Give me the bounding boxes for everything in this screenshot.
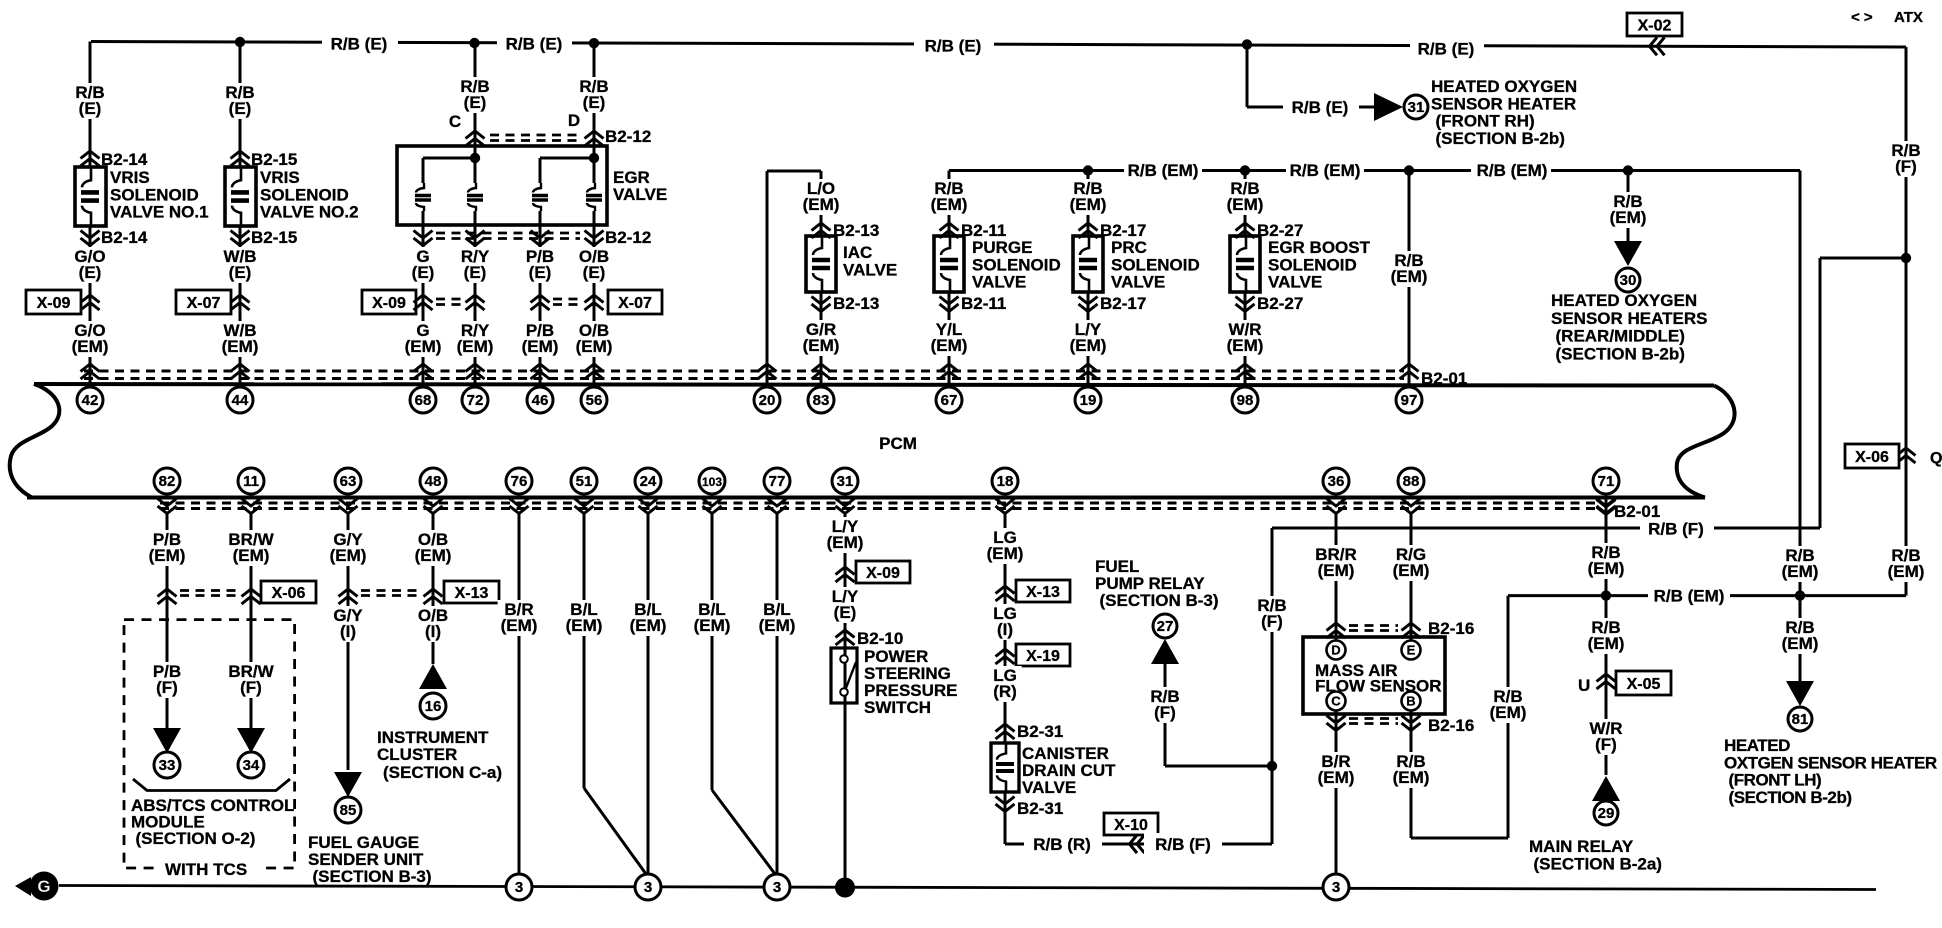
svg-text:R/B (F): R/B (F) (1648, 520, 1704, 539)
wire pin 36 BR/R (1335, 512, 1338, 641)
svg-text:(EM): (EM) (931, 336, 968, 355)
wire pin 51 B/L to ground (583, 512, 586, 788)
svg-text:B2-01: B2-01 (1614, 502, 1660, 521)
node circle 27 fuel pump relay (1153, 614, 1177, 638)
wire label R/B (E) #3 (914, 34, 994, 56)
svg-text:(R): (R) (993, 682, 1017, 701)
svg-text:X-09: X-09 (866, 565, 900, 582)
PCM pin 82 (154, 468, 180, 494)
svg-text:X-02: X-02 (1638, 18, 1672, 35)
svg-text:48: 48 (425, 473, 442, 490)
connector X-13 row chevrons (339, 589, 358, 604)
svg-text:20: 20 (759, 392, 776, 409)
svg-text:(I): (I) (340, 622, 356, 641)
PCM pin 98 (1232, 387, 1258, 413)
svg-text:31: 31 (1408, 99, 1425, 116)
svg-text:(E): (E) (583, 263, 606, 282)
svg-text:81: 81 (1792, 711, 1809, 728)
svg-text:(EM): (EM) (931, 195, 968, 214)
node dot right R/B (F) (1901, 253, 1911, 263)
connector X-06 row chevrons (158, 589, 177, 604)
arrow to circle 33 (153, 728, 181, 753)
svg-text:(F): (F) (240, 678, 262, 697)
wire fuel pump relay R/B (F) (1164, 664, 1167, 766)
svg-text:36: 36 (1328, 473, 1345, 490)
solenoid IAC valve (806, 236, 836, 292)
arrow to circle 85 (334, 772, 362, 797)
svg-text:R/B (EM): R/B (EM) (1128, 161, 1199, 180)
svg-text:R/B (EM): R/B (EM) (1290, 161, 1361, 180)
node circle 29 main relay (1594, 801, 1618, 825)
PCM connector chevron pin 67 (940, 364, 959, 379)
wire R/B (EM) from rail down right side (1799, 171, 1802, 596)
svg-text:B2-14: B2-14 (101, 150, 148, 169)
solenoid EGR boost solenoid valve (1230, 236, 1260, 292)
svg-text:(SECTION B-2a): (SECTION B-2a) (1534, 855, 1662, 874)
svg-text:(EM): (EM) (72, 337, 109, 356)
svg-text:X-19: X-19 (1026, 648, 1060, 665)
svg-text:PRC: PRC (1111, 238, 1147, 257)
svg-text:(F): (F) (156, 678, 178, 697)
connector B2-16 top row (1327, 623, 1346, 638)
connector B2-13 bottom (812, 297, 831, 312)
svg-text:HEATED OXYGEN: HEATED OXYGEN (1431, 77, 1577, 96)
solenoid purge solenoid valve (934, 236, 964, 292)
wire VRIS1 lower G/O (89, 226, 92, 384)
svg-text:3: 3 (644, 879, 652, 896)
svg-text:56: 56 (586, 392, 603, 409)
wire label R/B (E) to sensor 31 (1283, 96, 1359, 118)
svg-text:(SECTION B-2b): (SECTION B-2b) (1436, 129, 1565, 148)
connector B2-27 top (1236, 223, 1255, 238)
svg-text:R/B (E): R/B (E) (1418, 40, 1475, 59)
PCM pin 77 (764, 468, 790, 494)
svg-text:VALVE NO.1: VALVE NO.1 (110, 203, 209, 222)
svg-text:76: 76 (511, 473, 528, 490)
solenoid VRIS solenoid valve No.2 (225, 167, 256, 226)
svg-text:SENSOR HEATERS: SENSOR HEATERS (1551, 309, 1708, 328)
svg-text:B2-10: B2-10 (857, 629, 903, 648)
connector B2-11 top (940, 223, 959, 238)
wire label R/B (R) (1024, 833, 1102, 854)
svg-text:46: 46 (532, 392, 549, 409)
ground symbol G (15, 877, 31, 896)
svg-text:Q: Q (1930, 450, 1942, 467)
svg-text:PCM: PCM (879, 434, 917, 453)
label WITH TCS (160, 857, 262, 877)
wire label R/B (EM) rail #1 (1124, 159, 1202, 180)
solenoid VRIS solenoid valve No.1 (75, 167, 106, 226)
PCM connector chevron pin 98 (1236, 364, 1255, 379)
svg-text:C: C (449, 112, 461, 131)
PCM bottom bus line (27, 496, 1705, 500)
arrow from fuel pump relay (1151, 639, 1179, 664)
wire label R/B (F) (1640, 518, 1714, 539)
svg-text:(E): (E) (529, 263, 552, 282)
svg-text:85: 85 (340, 802, 357, 819)
EGR coil 4 (586, 183, 602, 211)
svg-text:SOLENOID: SOLENOID (1111, 255, 1200, 274)
wire pin 31 L/Y (844, 512, 847, 878)
PCM bottom connector chevrons (158, 499, 177, 514)
wire purge to pin 67 Y/L (948, 292, 951, 384)
svg-text:R/B (EM): R/B (EM) (1477, 161, 1548, 180)
svg-text:SOLENOID: SOLENOID (110, 185, 199, 204)
PCM pin 63 (335, 468, 361, 494)
svg-text:R/B (E): R/B (E) (925, 37, 982, 56)
PCM connector chevron pin 44 (231, 364, 250, 379)
svg-text:(EM): (EM) (1393, 768, 1430, 787)
PCM pin 56 (581, 387, 607, 413)
connector B2-10 (836, 630, 855, 645)
wire R/B (F) vertical to X-10 line (1271, 528, 1274, 844)
svg-text:G: G (37, 877, 50, 896)
svg-text:(EM): (EM) (630, 616, 667, 635)
svg-text:(EM): (EM) (1588, 559, 1625, 578)
mass air flow sensor box (1303, 637, 1445, 714)
PCM pin 103 (699, 468, 725, 494)
svg-text:82: 82 (159, 473, 176, 490)
svg-text:(EM): (EM) (566, 616, 603, 635)
PCM pin 18 (992, 468, 1018, 494)
node dots on R/B (EM) lower (1601, 590, 1611, 600)
PCM top connector dashed lines (84, 369, 1404, 372)
connector B2-14 top (81, 151, 100, 166)
svg-text:(EM): (EM) (1782, 634, 1819, 653)
svg-text:(F): (F) (1154, 703, 1176, 722)
svg-text:98: 98 (1237, 392, 1254, 409)
wire R/B (R) horizontal (1005, 843, 1272, 846)
arrow to circle 30 (1614, 241, 1642, 266)
svg-text:(EM): (EM) (1782, 562, 1819, 581)
wire label R/B (EM) rail #3 (1471, 159, 1551, 180)
wire R/B (EM) horizontal lower (1508, 594, 1906, 597)
power steering pressure switch (831, 648, 857, 703)
svg-text:(FRONT RH): (FRONT RH) (1436, 112, 1535, 131)
svg-text:R/B (R): R/B (R) (1033, 835, 1091, 854)
connector X-10 (1130, 835, 1145, 853)
svg-text:(EM): (EM) (222, 337, 259, 356)
svg-text:(EM): (EM) (803, 195, 840, 214)
svg-text:51: 51 (576, 473, 593, 490)
wire pin 48 O/B (432, 512, 435, 664)
svg-text:B2-31: B2-31 (1017, 722, 1063, 741)
connector B2-11 bottom (940, 297, 959, 312)
svg-text:(REAR/MIDDLE): (REAR/MIDDLE) (1556, 327, 1685, 346)
wire to heated oxygen sensor heater front RH (1246, 45, 1249, 108)
svg-text:(EM): (EM) (1318, 561, 1355, 580)
svg-text:B2-17: B2-17 (1100, 294, 1146, 313)
arrow to circle 34 (237, 728, 265, 753)
svg-text:B2-31: B2-31 (1017, 799, 1063, 818)
connector X-07 (VRIS2) (176, 290, 231, 314)
PCM pin 11 (238, 468, 264, 494)
svg-text:X-07: X-07 (187, 295, 221, 312)
svg-text:(SECTION B-3): (SECTION B-3) (313, 867, 432, 886)
wire IAC to pin 83 G/R (820, 292, 823, 384)
svg-text:(EM): (EM) (1393, 561, 1430, 580)
connector B2-15 bottom (231, 231, 250, 246)
wire VRIS2 column R/B (E) (239, 42, 242, 167)
PCM pin 51 (571, 468, 597, 494)
svg-text:(F): (F) (1595, 735, 1617, 754)
PCM connector chevron pin 83 (812, 364, 831, 379)
node junction dots on top rail (235, 37, 245, 47)
connector B2-14 bottom (81, 231, 100, 246)
wire pin 71 column (1605, 497, 1608, 775)
wire pin 97 R/B (EM) (1408, 171, 1411, 385)
PCM connector chevron pin 42 (81, 364, 100, 379)
PCM pin 36 (1323, 468, 1349, 494)
svg-text:(EM): (EM) (1391, 267, 1428, 286)
svg-text:(EM): (EM) (1318, 768, 1355, 787)
svg-text:ATX: ATX (1894, 9, 1923, 26)
wire pin 103 B/L to ground (711, 512, 714, 790)
connector X-09 / X-07 row (EGR) (362, 290, 416, 314)
svg-text:EGR BOOST: EGR BOOST (1268, 238, 1371, 257)
wire pin 18 LG (1004, 512, 1007, 743)
svg-text:27: 27 (1157, 618, 1174, 635)
wire pin20 to IAC valve (766, 171, 769, 384)
node circle 85 (335, 797, 361, 823)
svg-text:(E): (E) (229, 263, 252, 282)
connector X-13 (col 18) (996, 586, 1015, 601)
PCM pin 72 (462, 387, 488, 413)
svg-text:R/B (F): R/B (F) (1155, 835, 1211, 854)
svg-text:33: 33 (159, 757, 176, 774)
PCM right torn edge (1677, 386, 1735, 498)
PCM pin 24 (635, 468, 661, 494)
svg-text:42: 42 (82, 392, 99, 409)
connector X-19 (996, 649, 1015, 664)
node circle 33 (154, 752, 180, 778)
node ground dot (PS switch) (835, 878, 855, 898)
svg-text:71: 71 (1598, 473, 1615, 490)
wire top R/B (E) rail (91, 42, 1906, 48)
svg-text:(E): (E) (412, 263, 435, 282)
svg-text:(SECTION B-2b): (SECTION B-2b) (1729, 788, 1852, 807)
wire VRIS2 lower W/B (239, 226, 242, 384)
wire EGR boost to pin 98 W/R (1244, 292, 1247, 384)
wire PRC to pin 19 L/Y (1087, 292, 1090, 384)
svg-text:(EM): (EM) (759, 616, 796, 635)
connector B2-15 top (231, 151, 250, 166)
node circle 16 (420, 693, 446, 719)
svg-text:WITH TCS: WITH TCS (165, 860, 247, 879)
connector B2-17 top (1079, 223, 1098, 238)
arrow to main relay (1592, 776, 1620, 801)
arrow to circle 31 (1374, 93, 1403, 121)
svg-text:VALVE: VALVE (843, 260, 897, 279)
wire VRIS1 column R/B (E) (89, 42, 92, 168)
svg-text:(EM): (EM) (501, 616, 538, 635)
PCM pin 42 (77, 387, 103, 413)
solenoid PRC solenoid valve (1073, 236, 1103, 292)
svg-text:(EM): (EM) (1227, 336, 1264, 355)
connector B2-27 bottom (1236, 297, 1255, 312)
wire EGR C column R/B (E) (474, 43, 477, 183)
wire pin 24 B/L to ground (647, 512, 650, 876)
wire to heated oxygen sensor heater front LH (1799, 596, 1802, 681)
svg-text:(E): (E) (79, 263, 102, 282)
svg-text:D: D (1331, 643, 1340, 658)
svg-text:(I): (I) (425, 622, 441, 641)
solenoid canister drain cut valve (991, 743, 1019, 792)
EGR coil 1 (415, 183, 431, 211)
node ground circle 3 (pins 51/24) (635, 874, 661, 900)
svg-text:VALVE: VALVE (972, 273, 1026, 292)
connector B2-17 bottom (1079, 297, 1098, 312)
svg-text:SOLENOID: SOLENOID (260, 185, 349, 204)
wire MAF B to R/B (EM) riser (1411, 837, 1508, 840)
svg-text:VRIS: VRIS (260, 168, 300, 187)
svg-text:SOLENOID: SOLENOID (1268, 255, 1357, 274)
wire R/B (F) horizontal (1272, 527, 1820, 530)
svg-text:11: 11 (243, 473, 259, 490)
PCM pin 68 (410, 387, 436, 413)
svg-text:SWITCH: SWITCH (864, 698, 931, 717)
svg-text:SENSOR HEATER: SENSOR HEATER (1431, 94, 1576, 113)
PCM pin 20 (754, 387, 780, 413)
PCM connector chevron pin 20 (758, 364, 777, 379)
svg-text:(EM): (EM) (457, 337, 494, 356)
svg-text:B2-11: B2-11 (961, 294, 1006, 313)
connector X-06 with Q (1897, 448, 1916, 463)
svg-text:SOLENOID: SOLENOID (972, 255, 1061, 274)
svg-text:X-07: X-07 (618, 295, 652, 312)
svg-text:X-10: X-10 (1114, 817, 1148, 834)
PCM connector chevron pin 19 (1079, 364, 1098, 379)
svg-text:(F): (F) (1895, 157, 1917, 176)
svg-text:OXTGEN SENSOR HEATER: OXTGEN SENSOR HEATER (1724, 753, 1937, 772)
svg-text:68: 68 (415, 392, 432, 409)
PCM pin 88 (1398, 468, 1424, 494)
arrow to circle 81 (1786, 681, 1814, 706)
svg-text:X-06: X-06 (272, 585, 306, 602)
connector B2-13 top (812, 223, 831, 238)
svg-text:(E): (E) (464, 93, 487, 112)
svg-text:83: 83 (813, 392, 830, 409)
svg-text:(EM): (EM) (149, 546, 186, 565)
svg-text:B2-15: B2-15 (251, 228, 297, 247)
connector B2-12 bottom row (414, 231, 433, 246)
svg-text:B2-13: B2-13 (833, 221, 879, 240)
svg-text:PURGE: PURGE (972, 238, 1032, 257)
EGR valve inner wiring (470, 153, 480, 163)
connector B2-16 bottom row (1327, 716, 1346, 731)
svg-text:X-13: X-13 (1026, 584, 1060, 601)
svg-text:77: 77 (769, 473, 786, 490)
svg-text:(EM): (EM) (576, 337, 613, 356)
svg-text:18: 18 (997, 473, 1014, 490)
svg-text:67: 67 (941, 392, 958, 409)
wire right R/B (F) from X-02 (1905, 47, 1908, 596)
svg-text:63: 63 (340, 473, 357, 490)
wire label R/B (E) #2 (497, 32, 572, 53)
wire purge column R/B (EM) (948, 171, 951, 237)
svg-text:B2-27: B2-27 (1257, 294, 1303, 313)
svg-text:B: B (1406, 694, 1415, 709)
PCM chevron pin 71 B2-01 (1597, 500, 1616, 515)
svg-text:VALVE NO.2: VALVE NO.2 (260, 203, 359, 222)
svg-text:(EM): (EM) (1070, 195, 1107, 214)
wire pin 11 BR/W (250, 512, 253, 729)
PCM pin 71 (1593, 468, 1619, 494)
EGR coil 3 (532, 183, 548, 211)
svg-text:B2-16: B2-16 (1428, 716, 1474, 735)
PCM pin 31 (832, 468, 858, 494)
node dot fuel pump junction (1267, 761, 1277, 771)
svg-text:(EM): (EM) (405, 337, 442, 356)
svg-text:R/B (E): R/B (E) (331, 35, 388, 54)
wire pin 88 R/G (1410, 512, 1413, 641)
svg-text:< >: < > (1851, 9, 1873, 26)
node circle 30 (1616, 268, 1640, 292)
svg-text:VALVE: VALVE (1268, 273, 1322, 292)
svg-text:(EM): (EM) (330, 546, 367, 565)
wire label R/B (EM) rail #2 (1286, 159, 1364, 180)
svg-text:(EM): (EM) (415, 546, 452, 565)
svg-text:19: 19 (1080, 392, 1097, 409)
svg-text:VALVE: VALVE (1111, 273, 1165, 292)
wire EGR D column R/B (E) (593, 43, 596, 183)
svg-text:3: 3 (773, 879, 781, 896)
node ground circle 3 (pins 103/77) (764, 874, 790, 900)
connector B2-12 top row (466, 131, 485, 146)
svg-text:(EM): (EM) (987, 544, 1024, 563)
svg-text:(SECTION B-2b): (SECTION B-2b) (1556, 344, 1685, 363)
svg-text:3: 3 (515, 879, 523, 896)
svg-text:(E): (E) (834, 603, 857, 622)
wire pin 63 G/Y (347, 512, 350, 770)
svg-text:88: 88 (1403, 473, 1420, 490)
svg-text:IAC: IAC (843, 243, 872, 262)
svg-text:44: 44 (232, 392, 249, 409)
connector X-13 box (444, 581, 499, 603)
wire pin 77 B/L to ground (776, 512, 779, 876)
svg-text:(FRONT LH): (FRONT LH) (1729, 771, 1822, 790)
svg-text:34: 34 (243, 757, 260, 774)
svg-text:VALVE: VALVE (613, 185, 667, 204)
node circle 34 (238, 752, 264, 778)
wire label R/B (E) #4 (1410, 37, 1484, 59)
svg-text:31: 31 (837, 473, 854, 490)
connector X-02 on top rail (1650, 37, 1665, 55)
svg-text:(EM): (EM) (233, 546, 270, 565)
PCM pin 97 (1396, 387, 1422, 413)
svg-text:(F): (F) (1261, 612, 1283, 631)
svg-text:X-06: X-06 (1855, 449, 1889, 466)
svg-text:(E): (E) (583, 93, 606, 112)
svg-text:E: E (1407, 643, 1416, 658)
svg-text:(EM): (EM) (1588, 634, 1625, 653)
svg-text:(EM): (EM) (522, 337, 559, 356)
wire R/B (EM) rail (949, 169, 1800, 172)
svg-text:B2-12: B2-12 (605, 228, 651, 247)
svg-text:(EM): (EM) (1888, 562, 1925, 581)
svg-text:16: 16 (425, 698, 442, 715)
svg-text:(EM): (EM) (803, 336, 840, 355)
ABS/TCS underbrace (133, 779, 290, 791)
wire branch to R/B (F) line (1820, 257, 1906, 260)
node ground circle 3 (pin 76) (506, 874, 532, 900)
PCM pin 46 (527, 387, 553, 413)
node dots on R/B (EM) rail (1083, 165, 1093, 175)
svg-text:(EM): (EM) (1070, 336, 1107, 355)
svg-text:72: 72 (467, 392, 484, 409)
PCM pin 48 (420, 468, 446, 494)
node circle 31 (1404, 95, 1428, 119)
